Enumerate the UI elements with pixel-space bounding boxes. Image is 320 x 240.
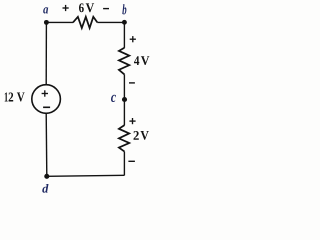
wire left upper (a to source) bbox=[45, 22, 47, 84]
wire left lower (source to d) bbox=[45, 113, 48, 176]
label 2 V bbox=[133, 131, 148, 140]
resistor 2V (right lower) bbox=[119, 125, 129, 152]
label 4 V bbox=[134, 56, 149, 65]
minus of 2V bbox=[128, 160, 135, 162]
wire top-left (a to resistor) bbox=[46, 21, 73, 23]
label + 6 V - (top resistor voltage) bbox=[63, 3, 110, 12]
wire right lower (2V resistor to bottom corner) bbox=[123, 152, 125, 176]
plus of 4V bbox=[130, 36, 136, 42]
minus of 4V bbox=[129, 82, 135, 84]
node a bbox=[43, 7, 49, 25]
wire bottom bbox=[47, 175, 125, 176]
voltage source 12V bbox=[32, 85, 61, 114]
plus of 2V bbox=[129, 118, 135, 124]
label 12 V (source value) bbox=[5, 92, 25, 101]
wire top-right (resistor to b) bbox=[97, 21, 124, 23]
node c bbox=[111, 95, 127, 102]
wire right middle (4V resistor to 2V resistor through c) bbox=[123, 74, 125, 125]
wire right upper (b to 4V resistor) bbox=[123, 22, 125, 48]
node d bbox=[42, 174, 49, 193]
resistor 6V (top) bbox=[73, 17, 97, 28]
node b bbox=[122, 4, 127, 25]
resistor 4V (right upper) bbox=[119, 48, 129, 75]
